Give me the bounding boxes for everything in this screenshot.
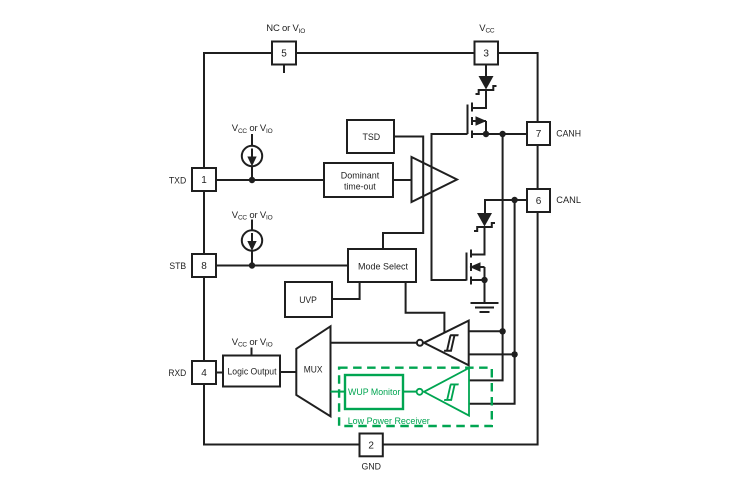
wire TXD line (216, 179, 324, 181)
pin 7 box (527, 122, 550, 145)
wire current source I1 to TXD line (251, 166, 253, 180)
svg-text:time-out: time-out (344, 182, 376, 193)
svg-text:TSD: TSD (363, 132, 381, 143)
wire CANL pin 6 to zener D2 (485, 200, 527, 213)
svg-text:STB: STB (169, 261, 186, 272)
svg-text:7: 7 (536, 129, 542, 140)
svg-text:5: 5 (281, 49, 287, 60)
svg-text:3: 3 (483, 49, 489, 60)
wire CANH vertical drop to receivers (469, 134, 503, 380)
dominant time-out box (324, 163, 393, 197)
MUX trapezoid (296, 326, 330, 416)
current source I2 arrow (249, 233, 255, 249)
receiver triangle (424, 321, 469, 366)
wire RXD pin to Logic Output (216, 372, 223, 374)
wire pin5 stub (283, 65, 285, 74)
low power receiver triangle (424, 368, 469, 416)
wire pin3 to zener D1 (485, 65, 487, 77)
wire current source I2 top stub (251, 220, 253, 231)
wire Mode Select to receiver enable (406, 282, 445, 333)
outer boundary (204, 53, 538, 445)
wire current source I2 to STB line (251, 251, 253, 266)
svg-text:8: 8 (201, 261, 207, 272)
svg-text:GND: GND (362, 462, 382, 473)
pin 8 box (192, 254, 216, 277)
current source I2 (242, 230, 262, 250)
wire receiver input from CANL (469, 353, 515, 355)
svg-text:Mode Select: Mode Select (358, 261, 408, 272)
pin 2 box (360, 434, 383, 457)
wire gate bus Q1 to Q2 (432, 134, 468, 280)
wire Vcc/Vio stub to Logic Output (251, 348, 253, 356)
pin 3 box (475, 42, 499, 65)
junction node Q2 source (481, 277, 487, 283)
transistor Q2 (low side) (467, 250, 485, 285)
current source I1 (242, 146, 262, 166)
svg-text:WUP Monitor: WUP Monitor (348, 387, 400, 398)
driver op-amp triangle (412, 157, 458, 202)
UVP box (285, 282, 332, 317)
wire Logic Output to MUX (280, 371, 296, 373)
junction node on TXD line (249, 177, 255, 183)
junction node receiver CANH input (499, 328, 505, 334)
wire Q1 body to source (485, 121, 487, 134)
wire STB line (216, 265, 348, 267)
current source I1 arrow (249, 149, 255, 165)
ground (471, 303, 499, 312)
pin 5 box (272, 42, 296, 65)
low power receiver bubble (417, 389, 423, 395)
mode select box (348, 249, 416, 282)
hysteresis glyph in receiver (444, 335, 458, 351)
wire zener D1 to Q1 drain (472, 90, 486, 108)
svg-text:MUX: MUX (304, 364, 323, 375)
junction node CANH tap (499, 131, 505, 137)
wire UVP to Mode Select (332, 282, 360, 299)
pin 6 box (527, 189, 550, 212)
receiver bubble (417, 340, 423, 346)
wire zener D2 to Q2 drain (471, 228, 485, 255)
wire current source I1 top stub (251, 134, 253, 146)
svg-text:Low Power Receiver: Low Power Receiver (348, 416, 430, 427)
wire Q2 source to ground (484, 280, 486, 303)
wire CANL vertical drop to receivers (469, 200, 515, 404)
svg-text:6: 6 (536, 196, 542, 207)
svg-text:1: 1 (201, 175, 207, 186)
junction node CANL tap (511, 197, 517, 203)
svg-text:RXD: RXD (168, 368, 186, 379)
junction node receiver CANL input (511, 351, 517, 357)
junction node Q1 source (483, 131, 489, 137)
wire MUX to WUP monitor (331, 391, 346, 393)
hysteresis glyph in low power receiver (444, 384, 458, 400)
svg-text:CANH: CANH (556, 129, 581, 140)
svg-text:CANL: CANL (556, 195, 581, 206)
wire dominant time-out to driver (393, 179, 412, 181)
TSD box (347, 120, 394, 153)
wire MUX to receiver bubble (331, 342, 417, 344)
svg-text:UVP: UVP (299, 295, 317, 306)
junction node on STB line (249, 262, 255, 268)
WUP monitor box (345, 375, 403, 409)
wire Q2 body to source (484, 267, 486, 280)
wire receiver input from CANH (469, 330, 503, 332)
wire WUP monitor to low power receiver bubble (403, 391, 417, 393)
svg-text:Dominant: Dominant (341, 171, 380, 182)
svg-text:4: 4 (201, 368, 207, 379)
low power receiver dashed enclosure (339, 368, 492, 426)
transistor Q1 (high side) (468, 103, 487, 139)
svg-text:2: 2 (368, 440, 374, 451)
pin 1 box (192, 168, 216, 191)
wire Q1 source to CANH pin 7 (472, 133, 527, 135)
svg-text:Logic Output: Logic Output (228, 366, 277, 377)
pin 4 box (192, 361, 216, 384)
wire TSD to Mode Select (383, 137, 423, 250)
zener diode D2 (474, 213, 495, 231)
logic output box (223, 356, 280, 387)
svg-text:TXD: TXD (169, 175, 186, 186)
zener diode D1 (476, 76, 497, 94)
